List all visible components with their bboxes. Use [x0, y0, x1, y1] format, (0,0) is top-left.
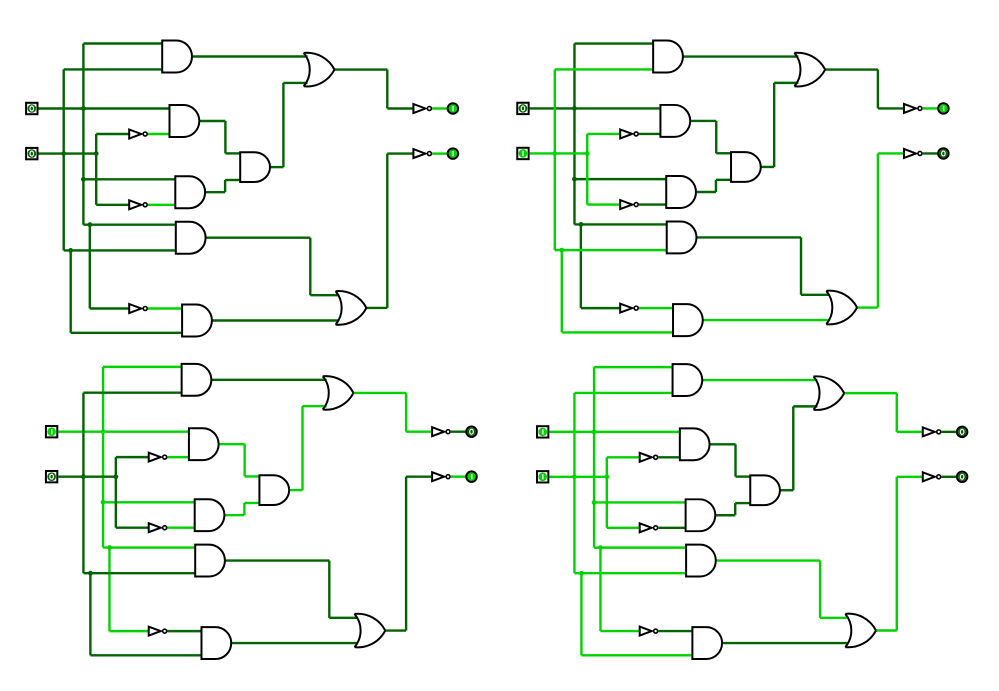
wire OR1 output vertical (Q2): [877, 70, 879, 109]
wire ANDC upper input (Q1): [225, 152, 240, 154]
NOT gate NOT5 (Q2): [904, 149, 922, 158]
wire OR2 upper input (Q3): [329, 617, 357, 619]
wire AND4 upper input (Q2): [574, 223, 666, 225]
wire AND5 lower input (Q1): [71, 332, 182, 334]
AND gate AND5 (Q3): [201, 627, 231, 659]
NOT gate NOT1 (Q3): [149, 453, 167, 462]
junction net B at AND4 input row (Q1): [68, 248, 73, 253]
junction net B at pin B row (Q1): [61, 151, 66, 156]
wire vertical bus of net B (Q3): [82, 393, 84, 573]
AND gate ANDC (Q4): [750, 475, 780, 505]
wire NOT4 output to LED1 (Q1): [432, 107, 447, 109]
NOT gate NOT2 (Q2): [620, 200, 638, 209]
output pin out2 value 1 (Q1): [448, 148, 458, 158]
wire AND5 output to OR2 lower input (Q1): [212, 319, 338, 321]
wire OR2 output (Q4): [876, 629, 897, 631]
input pin A value 0 (Q2): [517, 103, 528, 114]
wire NOT1 input (Q3): [116, 456, 149, 458]
wire NOT4 output to LED1 (Q2): [923, 107, 938, 109]
junction net B at pin B row (Q2): [552, 151, 557, 156]
AND gate AND4 (Q3): [195, 545, 225, 577]
AND gate AND2 (Q3): [189, 428, 219, 460]
AND gate AND3 (Q3): [195, 499, 225, 531]
wire AND2 output vertical (Q3): [243, 444, 245, 476]
wire AND2 output (Q3): [219, 443, 244, 445]
wire AND1 output to OR1 upper input (Q1): [193, 55, 308, 57]
wire AND2 output (Q1): [200, 120, 226, 122]
wire AND3 output (Q1): [206, 191, 225, 193]
wire NOT1 output to AND2 lower input (Q4): [658, 456, 680, 458]
wire OR1 output (Q2): [825, 68, 878, 70]
OR gate OR2 (Q2): [826, 291, 857, 325]
wire AND4 upper input (Q3): [103, 546, 195, 548]
wire NOT2 output to AND3 lower input (Q3): [167, 527, 194, 529]
wire vertical branch of net A (Q4): [599, 548, 601, 631]
junction net A at AND4 input row (Q2): [579, 222, 584, 227]
AND gate AND2 (Q4): [680, 428, 710, 460]
wire vertical branch of net A (Q2): [580, 224, 582, 308]
AND gate AND3 (Q4): [686, 499, 716, 531]
NOT gate NOT1 (Q4): [640, 453, 658, 462]
junction net A at AND3 input row (Q3): [101, 500, 106, 505]
wire pin A to AND2 upper input (Q1): [39, 107, 170, 109]
wire ANDC upper input (Q3): [245, 475, 260, 477]
input pin B value 1 (Q4): [537, 471, 548, 482]
wire vertical branch of net B (Q1): [69, 250, 71, 332]
wire NOT1 input (Q1): [96, 133, 129, 135]
wire NOT3 output to AND5 upper input (Q4): [658, 630, 692, 632]
wire AND1 lower input (Q4): [574, 392, 672, 394]
OR gate OR1 (Q3): [323, 376, 354, 410]
AND gate ANDC (Q3): [259, 475, 289, 505]
wire AND1 upper input (Q4): [594, 366, 672, 368]
wire vertical bus of net B (Q1): [63, 69, 65, 250]
wire NOT2 input (Q2): [587, 203, 620, 205]
input pin B value 0 (Q1): [26, 148, 37, 159]
wire pin B stub (Q1): [39, 152, 97, 154]
NOT gate NOT4 (Q4): [923, 427, 941, 436]
wire vertical branch of net B to inverters (Q2): [586, 134, 588, 205]
wire vertical bus of net A (Q1): [82, 44, 84, 225]
junction net A at pin A row (Q4): [592, 429, 597, 434]
wire AND3 upper input (Q4): [594, 501, 686, 503]
input pin B value 0 (Q3): [46, 471, 57, 482]
AND gate AND1 (Q4): [673, 364, 703, 396]
wire NOT5 input (Q3): [406, 475, 432, 477]
wire AND4 output vertical (Q2): [800, 237, 802, 294]
wire vertical branch of net A (Q1): [89, 225, 91, 309]
NOT gate NOT1 (Q2): [620, 129, 638, 138]
wire NOT4 input (Q2): [878, 107, 904, 109]
wire vertical bus of net A (Q3): [102, 367, 104, 548]
wire ANDC output (Q3): [290, 489, 303, 491]
junction net B at pin B row right (Q4): [604, 474, 609, 479]
wire OR2 output (Q2): [857, 306, 878, 308]
junction net B at pin B row (Q3): [81, 474, 86, 479]
wire OR2 output vertical (Q4): [896, 477, 898, 631]
wire NOT4 output to LED1 (Q4): [942, 431, 957, 433]
output pin out1 value 0 (Q4): [957, 427, 967, 437]
input pin A value 1 (Q4): [537, 426, 548, 437]
wire AND3 output vertical (Q1): [224, 180, 226, 192]
wire pin B stub (Q2): [530, 152, 588, 154]
wire AND4 upper input (Q4): [594, 546, 686, 548]
wire ANDC lower input (Q1): [225, 179, 241, 181]
wire NOT1 input (Q2): [587, 133, 620, 135]
wire NOT3 input (Q1): [90, 307, 129, 309]
wire ANDC lower input (Q2): [716, 179, 732, 181]
wire OR2 upper input (Q2): [801, 294, 829, 296]
wire NOT1 output to AND2 lower input (Q1): [148, 133, 170, 135]
wire NOT3 input (Q2): [581, 307, 620, 309]
wire AND1 lower input (Q2): [555, 68, 653, 70]
wire pin B stub (Q3): [58, 475, 116, 477]
wire NOT3 output to AND5 upper input (Q2): [639, 307, 673, 309]
wire AND3 upper input (Q1): [83, 178, 175, 180]
wire OR1 output vertical (Q4): [896, 393, 898, 432]
wire vertical branch of net B to inverters (Q1): [95, 134, 97, 205]
junction net B at pin B row right (Q1): [94, 151, 99, 156]
wire NOT2 output to AND3 lower input (Q1): [148, 204, 175, 206]
wire AND2 output vertical (Q4): [734, 444, 736, 476]
junction net A at AND4 input row (Q1): [88, 222, 93, 227]
NOT gate NOT2 (Q4): [640, 523, 658, 532]
OR gate OR2 (Q3): [355, 614, 386, 648]
input pin A value 1 (Q3): [46, 426, 57, 437]
wire OR1 output vertical (Q3): [405, 393, 407, 432]
wire AND4 lower input (Q2): [555, 249, 667, 251]
wire OR1 lower input (Q1): [283, 82, 307, 84]
junction net A at AND3 input row (Q2): [572, 177, 577, 182]
AND gate AND2 (Q2): [660, 105, 690, 137]
wire AND2 output (Q2): [691, 120, 716, 122]
wire AND3 output (Q3): [225, 514, 244, 516]
output pin out2 value 1 (Q3): [466, 471, 476, 481]
wire AND4 output vertical (Q4): [819, 561, 821, 618]
NOT gate NOT4 (Q3): [432, 427, 450, 436]
wire OR1 output (Q4): [844, 392, 897, 394]
AND gate AND5 (Q2): [673, 304, 703, 336]
wire NOT5 input (Q4): [897, 476, 923, 478]
wire ANDC output vertical (Q1): [282, 83, 284, 167]
wire AND3 output vertical (Q4): [734, 503, 736, 515]
wire OR2 upper input (Q4): [820, 617, 848, 619]
wire AND3 output (Q2): [697, 191, 716, 193]
junction net B at AND4 input row (Q4): [579, 571, 584, 576]
AND gate AND1 (Q1): [162, 41, 192, 73]
wire AND5 output to OR2 lower input (Q3): [231, 642, 357, 644]
wire ANDC output (Q1): [270, 166, 283, 168]
wire vertical bus of net A (Q4): [593, 367, 595, 547]
junction net B at pin B row right (Q2): [585, 151, 590, 156]
NOT gate NOT5 (Q1): [413, 149, 431, 158]
wire AND4 output (Q2): [697, 236, 801, 238]
wire ANDC output vertical (Q3): [301, 406, 303, 490]
wire NOT2 input (Q1): [96, 204, 129, 206]
wire AND3 output vertical (Q2): [715, 180, 717, 192]
wire AND4 output vertical (Q3): [328, 561, 330, 618]
wire OR1 lower input (Q2): [774, 82, 798, 84]
NOT gate NOT3 (Q2): [620, 304, 638, 313]
wire AND3 output (Q4): [716, 514, 735, 516]
wire vertical bus of net A (Q2): [573, 44, 575, 225]
wire NOT5 output to LED2 (Q4): [942, 476, 957, 478]
wire vertical bus of net B (Q2): [554, 69, 556, 250]
wire AND1 output to OR1 upper input (Q3): [212, 379, 327, 381]
junction net B at AND4 input row (Q3): [88, 571, 93, 576]
AND gate AND4 (Q1): [176, 222, 206, 254]
wire ANDC upper input (Q4): [736, 475, 751, 477]
wire OR1 lower input (Q3): [302, 405, 326, 407]
AND gate AND1 (Q3): [182, 364, 212, 396]
OR gate OR2 (Q4): [845, 614, 876, 648]
wire AND4 output (Q3): [226, 559, 330, 561]
wire NOT3 input (Q4): [600, 630, 639, 632]
wire AND4 output (Q4): [716, 559, 820, 561]
wire AND4 upper input (Q1): [83, 223, 175, 225]
wire NOT1 output to AND2 lower input (Q2): [639, 133, 661, 135]
AND gate ANDC (Q1): [240, 152, 270, 182]
wire NOT4 output to LED1 (Q3): [451, 430, 466, 432]
OR gate OR1 (Q2): [794, 53, 825, 87]
wire pin A to AND2 upper input (Q3): [58, 430, 189, 432]
wire AND5 lower input (Q2): [562, 331, 673, 333]
wire vertical bus of net B (Q4): [573, 393, 575, 573]
NOT gate NOT4 (Q2): [904, 104, 922, 113]
wire ANDC output (Q2): [761, 166, 774, 168]
wire AND4 lower input (Q1): [64, 249, 176, 251]
wire NOT5 output to LED2 (Q1): [432, 152, 447, 154]
AND gate AND4 (Q2): [667, 221, 697, 253]
wire OR2 output vertical (Q1): [386, 154, 388, 308]
wire NOT3 output to AND5 upper input (Q3): [167, 630, 201, 632]
wire ANDC lower input (Q3): [244, 502, 260, 504]
wire OR1 lower input (Q4): [793, 405, 817, 407]
wire ANDC lower input (Q4): [735, 502, 751, 504]
OR gate OR1 (Q4): [814, 376, 845, 410]
wire AND5 lower input (Q4): [581, 654, 692, 656]
wire pin A to AND2 upper input (Q4): [549, 431, 679, 433]
AND gate AND5 (Q1): [182, 305, 212, 337]
junction net B at pin B row right (Q3): [113, 474, 118, 479]
wire AND4 lower input (Q3): [83, 572, 195, 574]
wire AND1 upper input (Q2): [574, 42, 653, 44]
wire AND1 lower input (Q3): [83, 392, 181, 394]
wire AND2 output (Q4): [710, 443, 735, 445]
wire OR1 output (Q3): [353, 392, 406, 394]
junction net A at pin A row (Q2): [572, 106, 577, 111]
wire vertical branch of net B to inverters (Q4): [606, 457, 608, 528]
wire OR2 output vertical (Q3): [405, 477, 407, 631]
wire NOT5 input (Q1): [387, 152, 413, 154]
wire pin B stub (Q4): [549, 476, 606, 478]
wire AND2 output vertical (Q2): [715, 121, 717, 153]
output pin out2 value 0 (Q4): [957, 472, 967, 482]
wire NOT4 input (Q3): [406, 430, 432, 432]
junction net A at pin A row (Q3): [101, 429, 106, 434]
junction net A at AND4 input row (Q4): [598, 545, 603, 550]
wire OR2 output vertical (Q2): [877, 153, 879, 307]
wire AND1 output to OR1 upper input (Q4): [703, 379, 818, 381]
junction net B at AND4 input row (Q2): [559, 248, 564, 253]
input pin A value 0 (Q1): [26, 103, 37, 114]
wire NOT2 input (Q3): [116, 527, 149, 529]
wire vertical branch of net B (Q4): [580, 573, 582, 655]
AND gate AND2 (Q1): [170, 105, 200, 137]
wire AND4 output vertical (Q1): [309, 238, 311, 296]
output pin out2 value 0 (Q2): [938, 148, 948, 158]
NOT gate NOT3 (Q3): [149, 627, 167, 636]
wire vertical branch of net B to inverters (Q3): [115, 457, 117, 528]
wire AND4 lower input (Q4): [574, 572, 686, 574]
wire AND1 lower input (Q1): [64, 68, 163, 70]
NOT gate NOT2 (Q1): [129, 200, 147, 209]
junction net A at AND3 input row (Q4): [592, 500, 597, 505]
junction net A at AND4 input row (Q3): [107, 545, 112, 550]
junction net A at AND3 input row (Q1): [81, 177, 86, 182]
AND gate AND3 (Q2): [666, 176, 696, 208]
wire OR1 output vertical (Q1): [386, 70, 388, 109]
wire AND1 upper input (Q3): [103, 366, 182, 368]
wire pin A to AND2 upper input (Q2): [530, 107, 661, 109]
AND gate ANDC (Q2): [731, 152, 761, 182]
wire AND3 output vertical (Q3): [243, 503, 245, 515]
wire NOT5 output to LED2 (Q3): [451, 475, 466, 477]
AND gate AND1 (Q2): [653, 41, 683, 73]
NOT gate NOT2 (Q3): [149, 523, 167, 532]
OR gate OR2 (Q1): [336, 291, 367, 325]
junction net B at pin B row (Q4): [572, 474, 577, 479]
wire vertical branch of net B (Q3): [89, 573, 91, 655]
wire vertical branch of net A (Q3): [108, 548, 110, 632]
input pin B value 1 (Q2): [517, 148, 528, 159]
NOT gate NOT3 (Q4): [640, 627, 658, 636]
NOT gate NOT4 (Q1): [413, 104, 431, 113]
wire NOT4 input (Q1): [387, 107, 413, 109]
wire AND2 output vertical (Q1): [224, 121, 226, 153]
wire ANDC upper input (Q2): [716, 152, 731, 154]
wire ANDC output (Q4): [780, 489, 793, 491]
wire NOT3 input (Q3): [109, 630, 148, 632]
wire AND5 output to OR2 lower input (Q2): [703, 319, 829, 321]
wire NOT5 output to LED2 (Q2): [923, 152, 938, 154]
output pin out1 value 0 (Q3): [466, 427, 476, 437]
wire NOT4 input (Q4): [897, 431, 923, 433]
wire AND5 lower input (Q3): [90, 654, 201, 656]
AND gate AND5 (Q4): [692, 627, 722, 659]
wire OR2 output (Q1): [366, 307, 387, 309]
wire ANDC output vertical (Q2): [773, 83, 775, 167]
wire NOT2 output to AND3 lower input (Q2): [639, 203, 666, 205]
wire AND3 upper input (Q3): [103, 501, 195, 503]
output pin out1 value 1 (Q2): [938, 103, 948, 113]
wire OR1 output (Q1): [334, 68, 387, 70]
AND gate AND3 (Q1): [175, 176, 205, 208]
NOT gate NOT5 (Q4): [923, 472, 941, 481]
NOT gate NOT3 (Q1): [129, 304, 147, 313]
NOT gate NOT5 (Q3): [432, 472, 450, 481]
wire OR2 output (Q3): [385, 629, 406, 631]
wire NOT1 output to AND2 lower input (Q3): [167, 456, 189, 458]
wire NOT3 output to AND5 upper input (Q1): [148, 307, 182, 309]
wire NOT2 input (Q4): [607, 527, 640, 529]
wire NOT2 output to AND3 lower input (Q4): [658, 527, 685, 529]
AND gate AND4 (Q4): [686, 545, 716, 577]
wire AND5 output to OR2 lower input (Q4): [722, 642, 848, 644]
wire OR2 upper input (Q1): [310, 294, 338, 296]
wire ANDC output vertical (Q4): [792, 406, 794, 490]
wire AND1 output to OR1 upper input (Q2): [684, 55, 799, 57]
junction net A at pin A row (Q1): [81, 106, 86, 111]
wire AND3 upper input (Q2): [574, 178, 666, 180]
wire vertical branch of net B (Q2): [561, 250, 563, 332]
wire NOT5 input (Q2): [878, 152, 904, 154]
wire NOT1 input (Q4): [607, 456, 640, 458]
wire AND4 output (Q1): [206, 236, 310, 238]
output pin out1 value 1 (Q1): [448, 103, 458, 113]
wire AND1 upper input (Q1): [83, 42, 162, 44]
OR gate OR1 (Q1): [304, 53, 335, 87]
NOT gate NOT1 (Q1): [129, 130, 147, 139]
